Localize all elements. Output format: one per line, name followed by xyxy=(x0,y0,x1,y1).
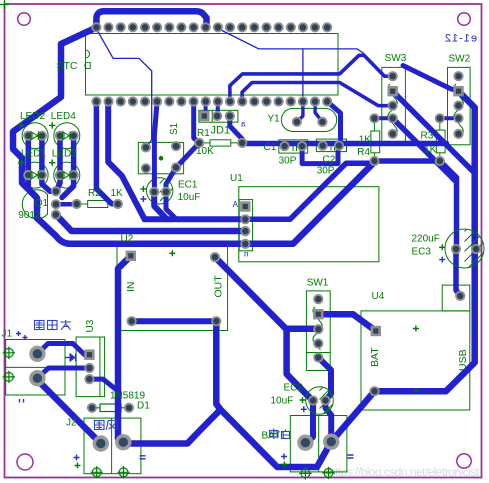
svg-text:1K: 1K xyxy=(359,135,372,146)
svg-text:EC2: EC2 xyxy=(284,383,304,394)
LED2 circle xyxy=(22,123,48,149)
svg-text:LED2: LED2 xyxy=(20,111,45,122)
wire EC2 right pad to BAT1 right pad xyxy=(326,401,332,442)
capacitor EC3 outline xyxy=(445,229,484,268)
wire EC1 left pad down to pad2-line xyxy=(154,192,167,219)
svg-text:R2: R2 xyxy=(88,188,101,199)
mounting hole top-right xyxy=(458,13,471,26)
wire IC pad12 riser to SW3 pad1 xyxy=(230,55,393,101)
wire BAT1 right pad to U4 BAT pad xyxy=(331,391,374,442)
resistor R4 body (vertical) xyxy=(371,131,380,153)
capacitor EC1 outline xyxy=(147,178,173,204)
svg-text:R1: R1 xyxy=(197,128,210,139)
svg-text:BAT: BAT xyxy=(369,347,381,367)
wire SW3 to SW2 square pad xyxy=(403,66,459,92)
svg-text:S1: S1 xyxy=(169,122,180,135)
svg-text:C2: C2 xyxy=(323,155,336,166)
svg-text:R4: R4 xyxy=(357,147,370,158)
wire LED4-LED3 left pads xyxy=(56,136,60,192)
wire SW2 square pad to right edge vertical to U4 pad xyxy=(375,91,475,391)
svg-text:A: A xyxy=(232,200,238,209)
svg-text:IN: IN xyxy=(125,282,137,293)
origin marker xyxy=(0,0,9,9)
diode D1 body xyxy=(100,404,121,412)
wire Y1 pad1 xyxy=(297,102,303,122)
svg-text:30P: 30P xyxy=(317,166,335,177)
regulator U3 outline xyxy=(76,337,105,397)
module U2 outline xyxy=(117,246,228,331)
svg-text:1K: 1K xyxy=(424,145,437,156)
wire J1 pad2 to J2 pad1 xyxy=(37,380,100,444)
svg-text:D: D xyxy=(84,60,92,72)
header JD1 outline xyxy=(199,110,238,122)
wire SW3 square pad diagonal to right edge xyxy=(393,91,475,173)
green labels xyxy=(2,53,471,442)
wire J1 pad2 to U3 pad2 xyxy=(37,368,89,378)
wire SW1 pad5 to EC2 right pad xyxy=(318,358,331,401)
capacitor C2 outline xyxy=(316,139,346,152)
svg-text:U1: U1 xyxy=(230,173,243,184)
wire U3 pad3 to J2 vertical xyxy=(89,379,118,391)
wire U1 pad2 line from EC1/left xyxy=(108,102,245,220)
svg-text:U2: U2 xyxy=(121,234,134,245)
svg-text:9012: 9012 xyxy=(18,210,41,221)
svg-text:J2: J2 xyxy=(66,418,77,429)
capacitor EC1 hatch xyxy=(148,164,186,211)
CJK battery label (mirrored) over BAT1 xyxy=(270,429,290,440)
wire C1 right pad bridge to C2 right pad xyxy=(302,146,338,164)
wire IC pad13 riser to R4 top pad xyxy=(242,83,393,106)
svg-text:J1: J1 xyxy=(2,329,13,340)
svg-text:STC: STC xyxy=(57,60,78,72)
wire EC3 left pad to U4 notch pad xyxy=(456,249,460,296)
resistor R3 body (vertical) xyxy=(436,130,445,153)
svg-text:10K: 10K xyxy=(196,146,214,157)
wire EC2 left pad to BAT1 left pad xyxy=(307,401,314,443)
wire U2 IN pad to J2 pad2 xyxy=(118,256,131,442)
wire EC1 right pad down to pad2-line xyxy=(166,192,177,219)
svg-text:n: n xyxy=(244,250,248,259)
LED2 diode symbol xyxy=(31,131,70,179)
wire U2 OUT pad to SW1 pad3 xyxy=(215,257,318,329)
svg-text:LED4: LED4 xyxy=(51,111,76,122)
svg-text:SW2: SW2 xyxy=(449,54,471,65)
switch SW2 outline xyxy=(448,67,471,144)
svg-text:10uF: 10uF xyxy=(271,396,294,407)
svg-text:U4: U4 xyxy=(372,291,385,302)
svg-text:LED1: LED1 xyxy=(21,149,46,160)
wire IC pad B1 down to R2 right pad xyxy=(96,102,117,204)
wire IC pad10 to JD1 pad1 xyxy=(204,102,208,117)
mounting hole top-left xyxy=(18,13,31,26)
wire U2 bottom pads bridge xyxy=(132,318,217,324)
wire thin pad1 to S1 pad1 xyxy=(96,29,151,147)
wire thin IC to SW area xyxy=(219,29,364,54)
LED3 diode symbol xyxy=(63,171,70,180)
IC U5 STC body outline xyxy=(86,34,339,96)
switch SW1 outline xyxy=(306,291,330,371)
svg-text:SW3: SW3 xyxy=(385,53,407,64)
blue labels xyxy=(232,33,477,259)
wire JD1 pad3 to R1 right pad xyxy=(230,116,242,143)
wire R4 top pad tick to SW3 pad4 xyxy=(374,116,392,120)
polarity marks green xyxy=(18,122,445,468)
CJK solar label (mirrored) near J1 xyxy=(35,320,72,330)
capacitor C1 outline xyxy=(279,140,308,153)
transistor Q1 outline xyxy=(22,190,47,219)
svg-text:EC1: EC1 xyxy=(178,180,198,191)
plated through holes xyxy=(3,347,335,480)
wire long horizontal R1 to SW2 xyxy=(242,141,446,147)
LED4 diode symbol xyxy=(63,131,70,140)
IC pin1 notch xyxy=(86,50,90,58)
svg-text:220uF: 220uF xyxy=(412,234,440,245)
IC U1 outline xyxy=(239,187,379,262)
wire thin drop to pad17 xyxy=(302,49,304,96)
wire Q1 pad3 to U1 pad3 xyxy=(56,215,245,231)
resistor R2 body xyxy=(88,201,108,208)
svg-text:JD1: JD1 xyxy=(211,125,231,137)
wire SW1 square pad to U4 square pad xyxy=(318,314,376,331)
svg-text:LED3: LED3 xyxy=(52,149,77,160)
wire Q1 pad2 to R2 left pad xyxy=(56,202,77,207)
wire IC pad20 to C2 right pad xyxy=(327,102,340,146)
connector J1 outline xyxy=(6,340,65,396)
svg-text:e1-12: e1-12 xyxy=(444,33,477,45)
svg-text:Q1: Q1 xyxy=(35,198,49,209)
svg-text:C1: C1 xyxy=(264,142,277,153)
connector J2 outline xyxy=(84,418,141,474)
wire U2 out-bottom pad down with Y junction to J2 pad1 and BAT1 xyxy=(123,321,331,467)
wire LED4-LED3 right pads xyxy=(62,136,74,198)
wire SW1 pad3 branch down to EC2 left pad xyxy=(287,329,313,401)
wire U1 pad2 diagonal to R4 rail xyxy=(245,161,374,219)
switch SW3 outline xyxy=(382,67,406,144)
CJK fan label (mirrored) near J2 xyxy=(95,421,119,430)
LED1 circle xyxy=(22,162,48,188)
LED4 circle xyxy=(54,123,80,149)
svg-text:30P: 30P xyxy=(279,156,297,167)
wire R4 pad to R3 pad to EC3 left pad xyxy=(374,161,456,249)
wire LED2-LED1 left pads xyxy=(28,136,36,196)
resistor R1 body xyxy=(210,140,231,146)
svg-text:U3: U3 xyxy=(85,319,96,332)
wire IC pad6 through S1 to EC1 left pad xyxy=(154,102,157,192)
crystal Y1 outline xyxy=(281,108,336,131)
LED1 diode symbol xyxy=(31,171,38,180)
mounting hole bottom-right xyxy=(457,454,471,468)
switch S1 body xyxy=(138,142,183,173)
mounting hole bottom-left xyxy=(17,454,33,470)
wire LED2-LED1 right pads xyxy=(42,136,56,192)
connector BAT1 outline xyxy=(290,416,347,472)
wire top staple to pad1 xyxy=(96,11,206,27)
wire IC pad9 to R1 left pad to S1 to EC1 xyxy=(166,102,199,192)
wire J1 pad1 to U3 pad1 xyxy=(37,344,89,355)
LED3 circle xyxy=(54,162,80,188)
wire IC pad11 to JD1 pad2 xyxy=(216,102,220,117)
wire R3 top pad tick to SW2 pad4 xyxy=(440,116,459,120)
svg-text:a: a xyxy=(241,120,246,129)
wire SW3 pad4 diagonal to EC3 vertical xyxy=(393,118,456,181)
svg-text:OUT: OUT xyxy=(213,275,225,298)
svg-text:Y1: Y1 xyxy=(268,114,281,125)
svg-text:USB: USB xyxy=(457,349,469,371)
svg-text:R3: R3 xyxy=(421,131,434,142)
wire Y1 pad2 xyxy=(315,102,322,122)
svg-text:1K: 1K xyxy=(111,188,124,199)
polarity marks blue xyxy=(16,196,445,461)
U3 diode arrow (blue) xyxy=(66,354,76,361)
svg-text:10uF: 10uF xyxy=(178,192,201,203)
module U4 outline xyxy=(361,311,470,410)
wire pad1 down-left rail to LED loop xyxy=(13,28,376,244)
svg-text:D1: D1 xyxy=(137,401,150,412)
svg-text:EC3: EC3 xyxy=(412,247,432,258)
svg-text:SW1: SW1 xyxy=(307,278,329,289)
